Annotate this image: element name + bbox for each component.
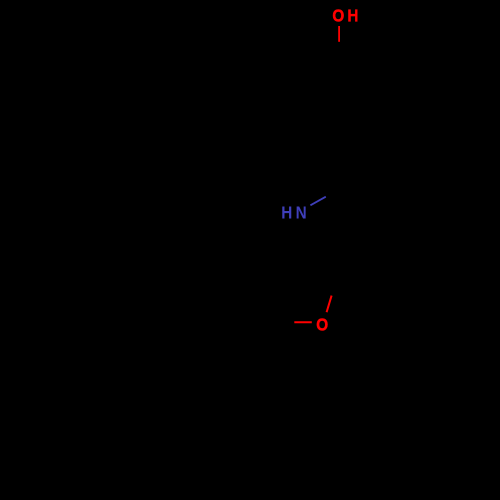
bond O-C5 furan (oxygen half, left) (294, 321, 312, 323)
svg-text:N: N (296, 202, 307, 222)
bond N-C (nitrogen half) (310, 197, 325, 206)
bond C-OH (oxygen half) (338, 26, 340, 42)
svg-text:O: O (332, 5, 344, 25)
bond O-C2 furan (oxygen half, upper right) (327, 296, 332, 313)
svg-text:H: H (347, 5, 358, 25)
svg-text:H: H (281, 202, 292, 222)
svg-text:O: O (316, 314, 328, 334)
